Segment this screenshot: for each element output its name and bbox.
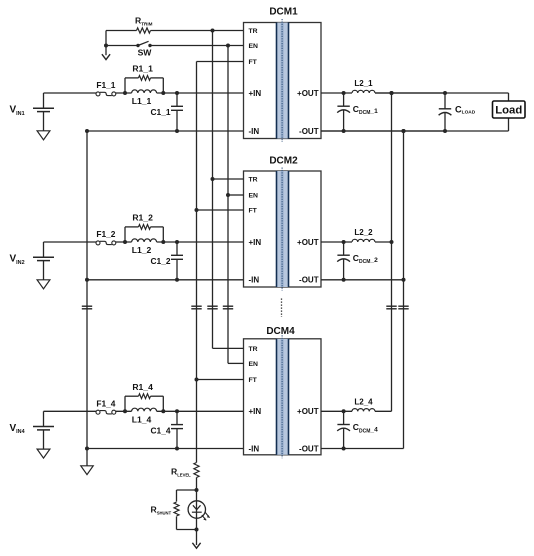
svg-text:C1_4: C1_4 <box>150 425 170 435</box>
svg-text:FT: FT <box>249 59 258 66</box>
svg-text:-IN: -IN <box>249 127 260 136</box>
svg-text:DCM2: DCM2 <box>269 156 298 167</box>
svg-text:+IN: +IN <box>249 238 262 247</box>
svg-text:-OUT: -OUT <box>299 444 319 453</box>
svg-text:L1_4: L1_4 <box>132 414 152 424</box>
svg-text:TR: TR <box>249 177 258 184</box>
svg-text:R1_1: R1_1 <box>132 64 153 74</box>
svg-text:DCM1: DCM1 <box>269 6 298 17</box>
svg-text:-IN: -IN <box>249 276 260 285</box>
svg-text:R1_2: R1_2 <box>132 213 153 223</box>
svg-text:C1_2: C1_2 <box>150 256 170 266</box>
svg-text:TR: TR <box>249 346 258 353</box>
svg-text:-OUT: -OUT <box>299 276 319 285</box>
svg-text:+IN: +IN <box>249 407 262 416</box>
svg-text:F1_2: F1_2 <box>96 229 115 239</box>
svg-text:TR: TR <box>249 28 258 35</box>
svg-text:DCM4: DCM4 <box>266 326 295 337</box>
svg-text:+OUT: +OUT <box>297 89 319 98</box>
svg-text:L2_4: L2_4 <box>354 398 373 407</box>
svg-text:R1_4: R1_4 <box>132 382 153 392</box>
svg-text:EN: EN <box>249 193 259 200</box>
svg-text:L2_2: L2_2 <box>354 228 373 237</box>
svg-text:-OUT: -OUT <box>299 127 319 136</box>
svg-text:L1_2: L1_2 <box>132 245 152 255</box>
svg-text:Load: Load <box>495 105 522 117</box>
svg-text:F1_4: F1_4 <box>96 398 115 408</box>
svg-text:+OUT: +OUT <box>297 238 319 247</box>
svg-text:FT: FT <box>249 377 258 384</box>
svg-text:+OUT: +OUT <box>297 407 319 416</box>
svg-text:SW: SW <box>138 48 153 58</box>
svg-text:C1_1: C1_1 <box>150 107 170 117</box>
svg-text:L2_1: L2_1 <box>354 79 373 88</box>
svg-text:EN: EN <box>249 43 259 50</box>
svg-text:-IN: -IN <box>249 444 260 453</box>
svg-text:F1_1: F1_1 <box>96 80 115 90</box>
svg-text:L1_1: L1_1 <box>132 96 152 106</box>
svg-text:+IN: +IN <box>249 89 262 98</box>
svg-text:EN: EN <box>249 361 259 368</box>
svg-text:FT: FT <box>249 208 258 215</box>
